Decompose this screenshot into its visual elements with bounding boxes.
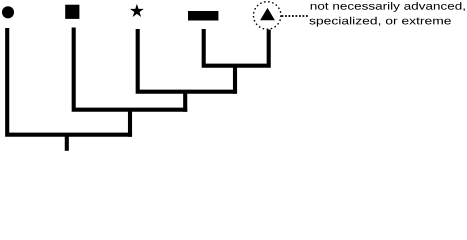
wire root stub [65,135,69,151]
annotation text line 1 [311,2,465,12]
dotted circle around triangle [253,2,281,30]
wire clade (square,...) [74,28,188,110]
wire clade (bar,triangle) [204,29,269,66]
filled circle taxon symbol [2,6,14,18]
annotation text line 2 [309,17,450,27]
filled bar taxon symbol [188,11,218,21]
wire clade (circle,...) [7,28,132,135]
wire stub star clade [183,92,187,112]
wire stub bar+triangle [233,66,237,94]
dotted leader line [282,15,309,17]
filled star taxon symbol [130,4,144,17]
filled square taxon symbol [65,5,79,19]
wire clade (star,...) [138,29,237,92]
wire stub square clade [128,110,132,137]
filled triangle taxon symbol [260,8,275,20]
